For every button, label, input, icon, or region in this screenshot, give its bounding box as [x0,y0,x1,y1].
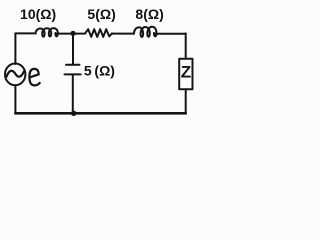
wire bottom [15,112,185,115]
capacitor C bottom plate [65,73,81,75]
svg-text:8(Ω): 8(Ω) [135,6,163,22]
wire between L1 and resistor [55,33,85,35]
source circle [5,64,25,86]
svg-text:10(Ω): 10(Ω) [20,6,56,22]
impedance box Z [179,59,192,89]
source sine wave [6,71,24,77]
node junction dot top [70,31,75,36]
resistor R 5 ohm [85,29,112,37]
wire left vertical lower [14,85,16,113]
svg-text:5 (Ω): 5 (Ω) [84,62,115,78]
label e source emf [29,69,39,86]
wire L2 to top-right corner [154,33,186,35]
inductor L1 10 ohm [36,28,58,37]
wire right vertical upper [185,33,187,58]
svg-text:Z: Z [181,62,191,81]
inductor L2 8 ohm [134,27,157,37]
wire top-left segment [15,32,35,34]
wire middle branch upper [72,33,74,64]
capacitor C top plate [66,64,80,66]
wire middle branch lower [72,74,74,113]
wire between resistor and L2 [112,33,134,35]
wire right vertical lower [185,89,187,113]
node junction dot bottom [71,111,76,116]
wire left vertical upper [14,33,16,64]
svg-text:5(Ω): 5(Ω) [87,6,115,22]
